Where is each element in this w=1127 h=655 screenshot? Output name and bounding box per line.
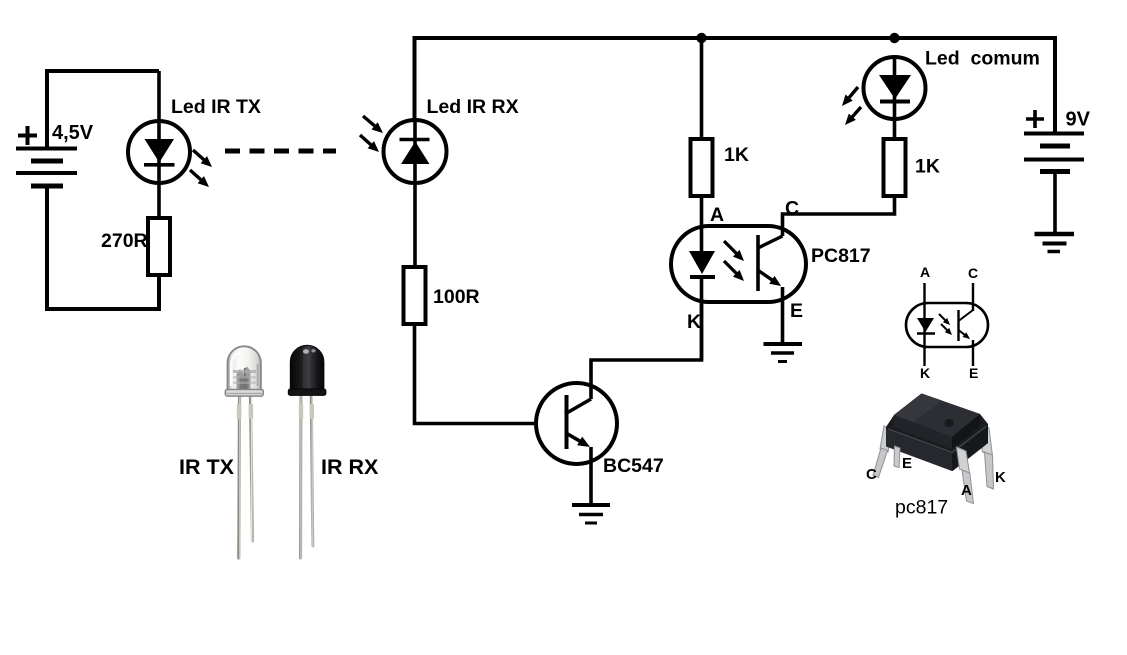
svg-text:1K: 1K (915, 156, 940, 178)
svg-text:Led: Led (925, 48, 960, 70)
svg-text:PC817: PC817 (811, 245, 871, 267)
svg-text:K: K (687, 311, 701, 333)
svg-text:4,5V: 4,5V (52, 122, 94, 144)
svg-text:100R: 100R (433, 286, 480, 308)
svg-text:IR TX: IR TX (179, 455, 235, 479)
svg-text:A: A (920, 264, 930, 280)
svg-text:C: C (866, 466, 877, 483)
svg-text:comum: comum (971, 48, 1040, 70)
svg-text:C: C (968, 265, 978, 281)
svg-text:270R: 270R (101, 230, 148, 252)
svg-text:pc817: pc817 (895, 497, 948, 519)
svg-text:1K: 1K (724, 144, 749, 166)
svg-text:K: K (920, 365, 930, 381)
svg-text:IR RX: IR RX (321, 455, 379, 479)
svg-text:K: K (995, 469, 1006, 486)
svg-text:C: C (785, 198, 799, 220)
svg-text:A: A (710, 204, 724, 226)
svg-text:9V: 9V (1066, 109, 1091, 131)
svg-text:E: E (902, 455, 912, 472)
svg-text:E: E (790, 300, 803, 322)
svg-text:Led IR RX: Led IR RX (427, 96, 519, 118)
svg-text:A: A (961, 482, 972, 499)
svg-text:E: E (969, 365, 978, 381)
svg-text:BC547: BC547 (603, 455, 664, 477)
svg-text:Led IR TX: Led IR TX (171, 96, 261, 118)
